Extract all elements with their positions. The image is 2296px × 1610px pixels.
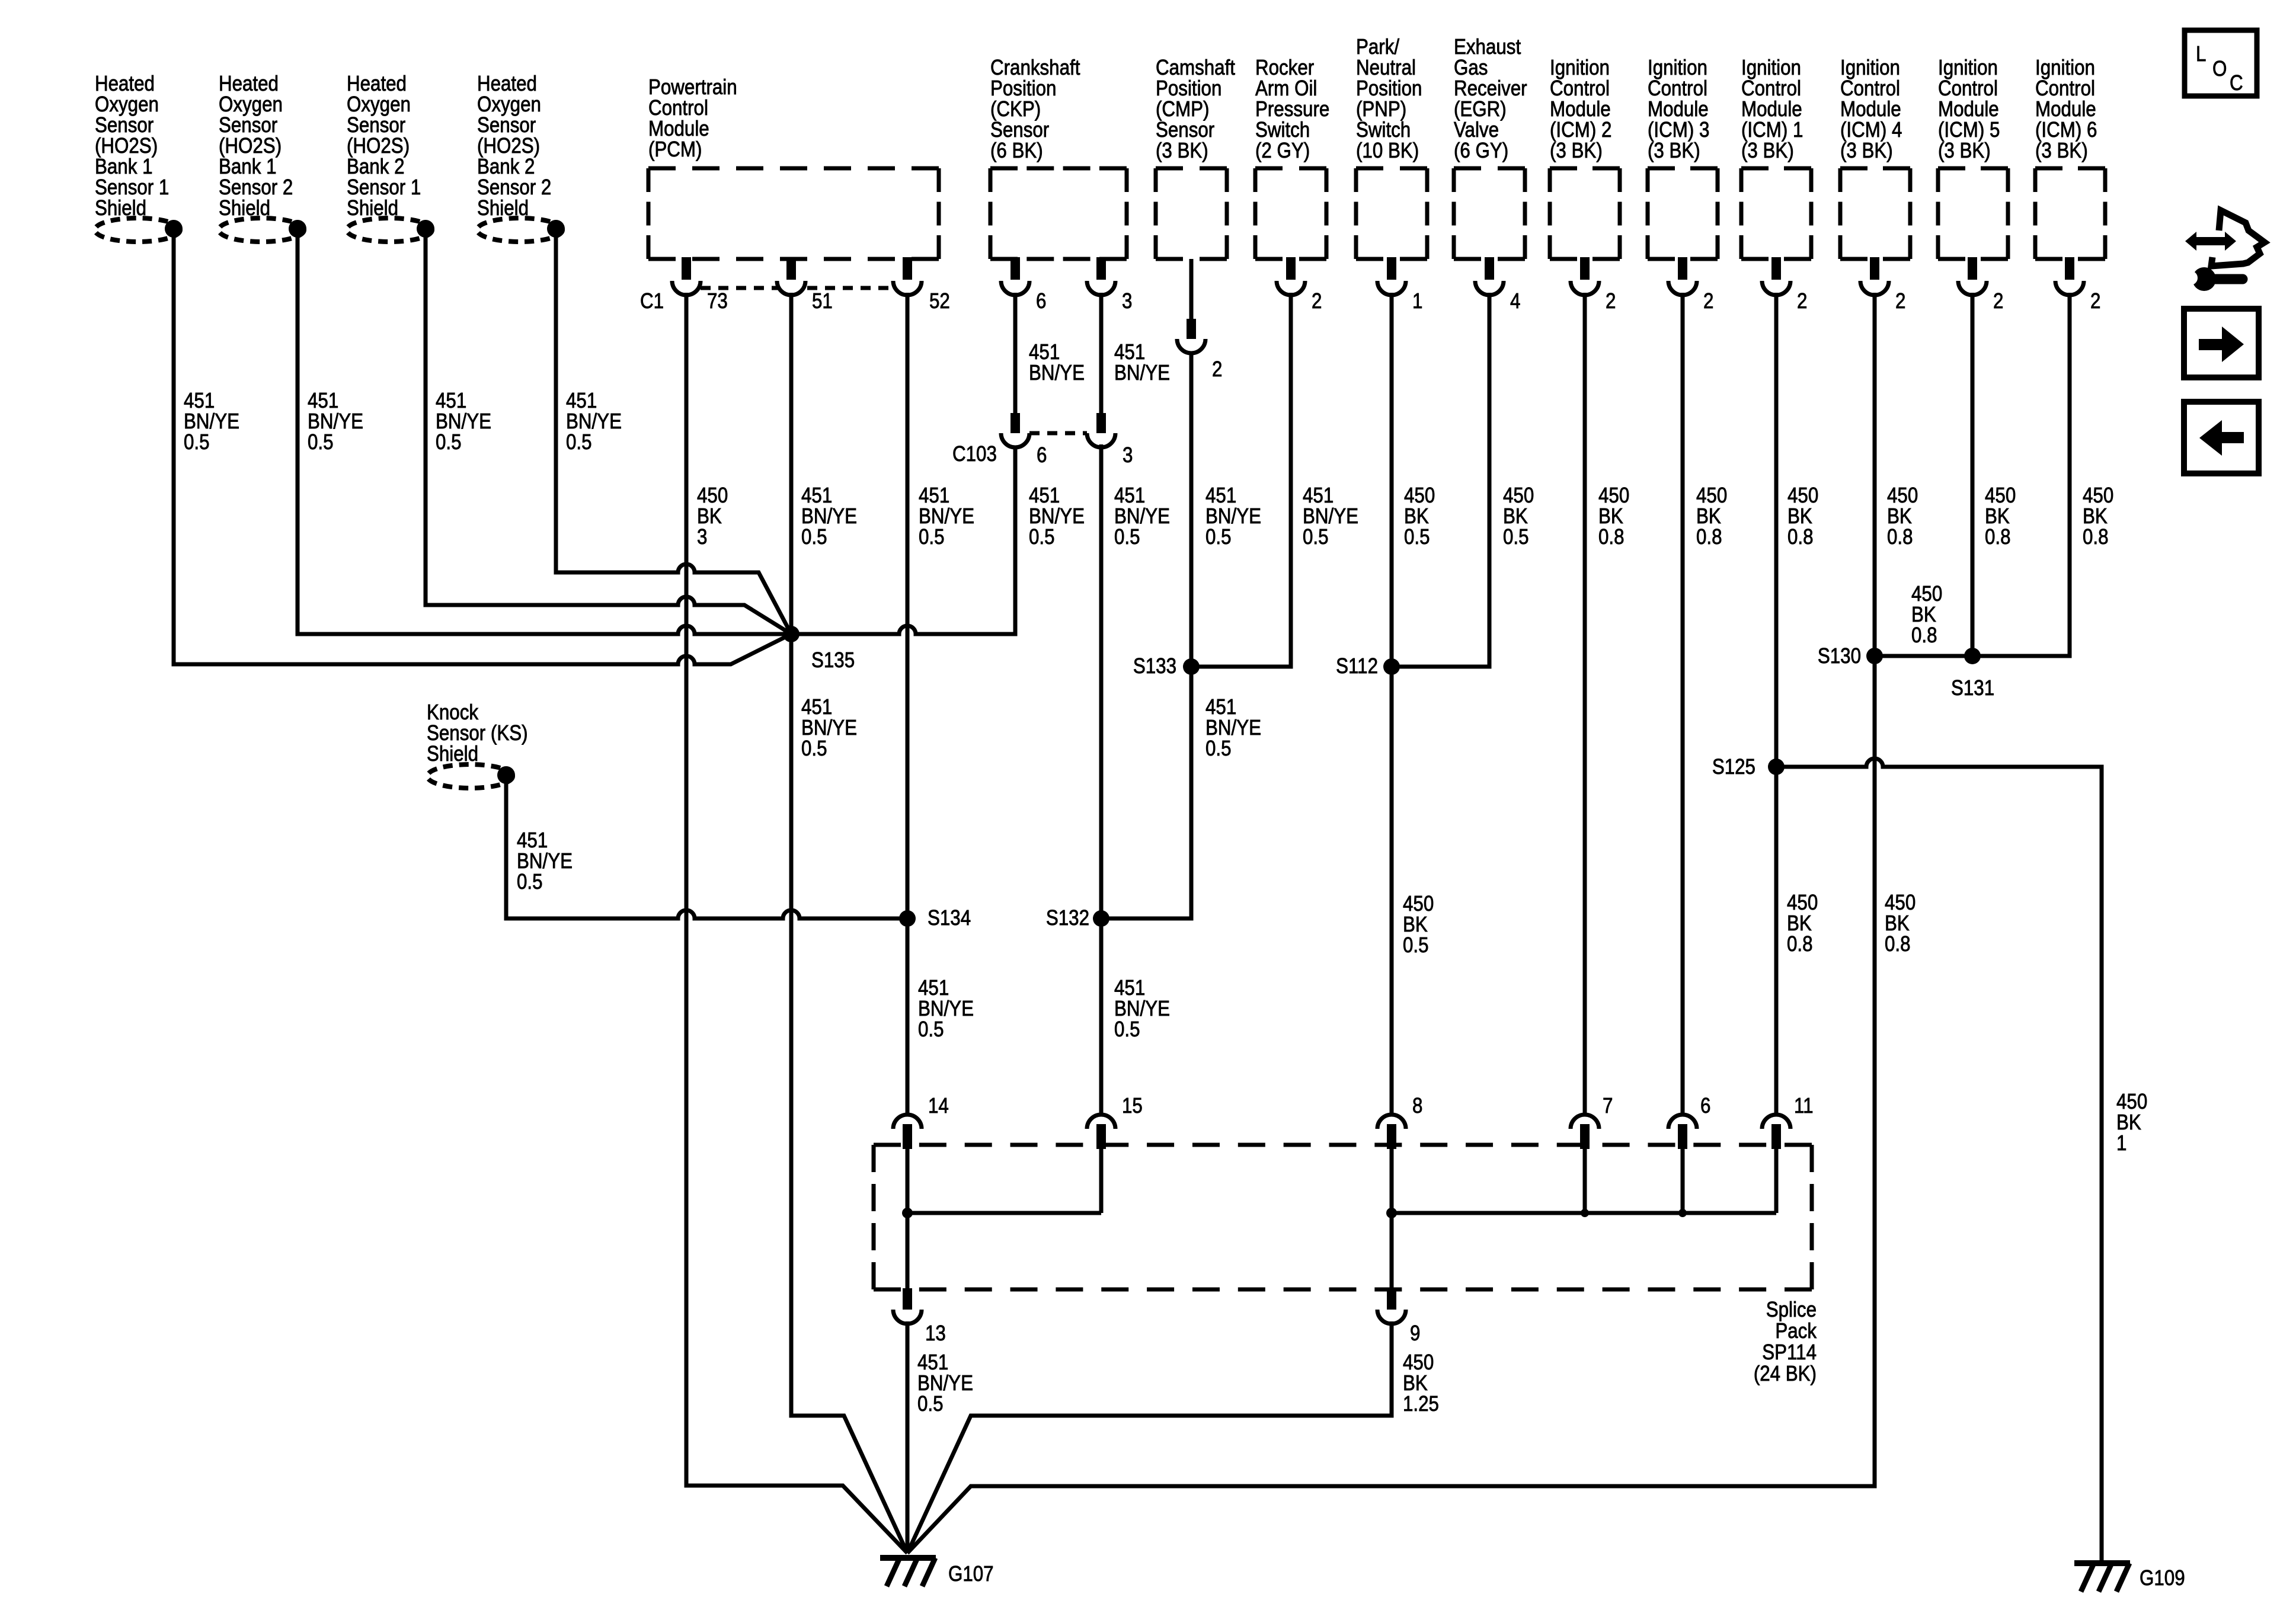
svg-text:3: 3 (1123, 443, 1133, 468)
svg-text:0.5: 0.5 (801, 737, 827, 761)
Powertrain Control Module (PCM) box (648, 168, 939, 259)
svg-text:0.5: 0.5 (517, 870, 543, 894)
ICM 2 pin 2 connector (1580, 257, 1590, 280)
PCM pin 52 connector (903, 257, 912, 280)
wire: HO2S shield 3 drain to S135 (451 BN/YE 0.5) (426, 232, 791, 634)
svg-text:(24 BK): (24 BK) (1754, 1362, 1817, 1386)
CKP pin 3 connector (1096, 257, 1106, 280)
Exhaust Gas Receiver Valve box (1454, 168, 1525, 259)
node S125 (1768, 758, 1785, 775)
svg-text:11: 11 (1794, 1094, 1814, 1118)
ICM 3 pin 2 connector (1678, 257, 1687, 280)
svg-text:52: 52 (929, 289, 950, 313)
ground G107 (880, 1555, 936, 1561)
svg-text:0.5: 0.5 (308, 430, 334, 454)
wire: PCM pin 52 through S134 to splice pin 14 (451 BN/YE 0.5) (906, 293, 910, 1116)
svg-text:0.5: 0.5 (1404, 525, 1430, 549)
svg-text:0.5: 0.5 (436, 430, 462, 454)
svg-text:73: 73 (707, 289, 728, 313)
svg-text:0.5: 0.5 (919, 525, 945, 549)
svg-text:Shield: Shield (477, 196, 529, 220)
wire: ICM2 pin 2 to splice pin 7 (450 BK 0.8) (1583, 293, 1587, 1116)
CMP pin 2 in-line connector (1187, 319, 1196, 339)
splice pin 11 connector (1762, 1115, 1790, 1129)
svg-text:3: 3 (1122, 289, 1132, 313)
wire: PCM pin 51 through S135 to G107 (451 BN/YE 0.5) (791, 293, 907, 1553)
svg-text:0.5: 0.5 (1114, 525, 1140, 549)
svg-text:2: 2 (1993, 289, 2003, 313)
Ignition Control Module 3 box (1648, 168, 1718, 259)
svg-text:(10 BK): (10 BK) (1356, 139, 1419, 163)
splice junction at pin 7 wire (1581, 1209, 1589, 1217)
wire: HO2S shield 4 drain to S135 (451 BN/YE 0.5) (556, 232, 791, 634)
connector C1 dashed link (701, 286, 894, 290)
wire: splice internal bus pins 8-11 (1392, 1211, 1776, 1215)
svg-text:0.5: 0.5 (1303, 525, 1329, 549)
connector C103 dashed link (1029, 431, 1087, 436)
svg-text:15: 15 (1122, 1094, 1143, 1118)
svg-text:(2 GY): (2 GY) (1255, 139, 1310, 163)
wire: splice internal bus pins 14-15 (907, 1211, 1101, 1215)
node S135 (783, 626, 800, 642)
svg-text:2: 2 (2090, 289, 2100, 313)
svg-text:S131: S131 (1951, 676, 1994, 700)
svg-text:0.5: 0.5 (917, 1392, 944, 1416)
wire: splice internal pin 7 stub (1583, 1149, 1587, 1213)
splice junction at pin 8 wire (1386, 1208, 1397, 1218)
node S130 (1866, 648, 1883, 664)
svg-text:14: 14 (928, 1094, 949, 1118)
svg-text:6: 6 (1036, 289, 1046, 313)
svg-text:0.5: 0.5 (566, 430, 592, 454)
wire: splice internal pin 14 to pin 13 (906, 1149, 910, 1289)
wire: CKP pin 6 to C103 (451 BN/YE) (1013, 293, 1018, 414)
HO2S shield 2 symbol (219, 218, 304, 242)
svg-text:S132: S132 (1046, 906, 1089, 930)
svg-text:0.8: 0.8 (1885, 932, 1911, 956)
wire: KS shield drain to S134 (451 BN/YE 0.5) (506, 779, 907, 918)
node S112 (1383, 658, 1400, 675)
ICM 5 pin 2 connector (1968, 257, 1977, 280)
wire: splice pin 9 to G107 (450 BK 1.25) (907, 1321, 1392, 1553)
wire: CMP pin 2 through S133 to S132 (451 BN/YE 0.5) (1101, 259, 1191, 918)
CKP pin 6 connector (1011, 257, 1020, 280)
wire: PNP pin 1 through S112 to splice pin 8 (450 BK 0.5) (1390, 293, 1394, 1116)
svg-text:0.8: 0.8 (1696, 525, 1722, 549)
svg-text:13: 13 (925, 1321, 946, 1346)
svg-text:0.8: 0.8 (1911, 623, 1937, 648)
PCM pin 73 connector (682, 257, 691, 280)
wire: S125 to G109 (450 BK 1) (1776, 758, 2102, 1562)
Ignition Control Module 2 box (1550, 168, 1620, 259)
wire: PCM pin 73 to G107 (450 BK 3) (686, 293, 907, 1553)
svg-text:51: 51 (812, 289, 833, 313)
wire: splice internal pin 15 stub (1099, 1149, 1104, 1213)
svg-text:0.8: 0.8 (1887, 525, 1913, 549)
svg-text:0.5: 0.5 (801, 525, 827, 549)
node S134 (899, 910, 916, 927)
splice pin 7 connector (1571, 1115, 1599, 1129)
svg-text:6: 6 (1037, 443, 1047, 468)
ICM 4 pin 2 connector (1870, 257, 1879, 280)
svg-text:(PCM): (PCM) (648, 137, 702, 162)
HO2S shield 3 symbol (347, 218, 432, 242)
svg-text:2: 2 (1312, 289, 1322, 313)
svg-text:0.5: 0.5 (918, 1017, 944, 1042)
svg-text:0.5: 0.5 (1403, 933, 1429, 958)
svg-text:C1: C1 (640, 289, 664, 313)
svg-text:1.25: 1.25 (1403, 1392, 1439, 1416)
splice junction at pin 14 wire (902, 1208, 913, 1218)
ground G109 (2074, 1560, 2130, 1566)
wire: splice internal pin 8 to pin 9 (1390, 1149, 1394, 1289)
svg-text:(6 GY): (6 GY) (1454, 139, 1508, 163)
wire: splice internal pin 6 stub (1681, 1149, 1685, 1213)
svg-text:G107: G107 (948, 1562, 994, 1586)
wire: ICM5 pin 2 to S131 (450 BK 0.8) (1971, 293, 1975, 656)
svg-text:6: 6 (1700, 1094, 1710, 1118)
svg-text:S133: S133 (1133, 654, 1176, 678)
svg-text:0.5: 0.5 (1205, 737, 1232, 761)
LOC reference box icon (2185, 30, 2257, 96)
Rocker pin 2 connector (1286, 257, 1296, 280)
svg-text:(3 BK): (3 BK) (1938, 139, 1991, 163)
Rocker Arm Oil Pressure Switch box (1255, 168, 1326, 259)
svg-text:7: 7 (1603, 1094, 1613, 1118)
svg-text:1: 1 (1412, 289, 1422, 313)
wire: ICM1 pin 2 through S125 to splice pin 11 (450 BK 0.8) (1774, 293, 1779, 1116)
splice pin 8 connector (1377, 1115, 1406, 1129)
svg-text:0.5: 0.5 (1029, 525, 1055, 549)
svg-text:BN/YE: BN/YE (1114, 361, 1170, 385)
svg-text:0.5: 0.5 (1205, 525, 1232, 549)
ICM 1 pin 2 connector (1771, 257, 1781, 280)
wire: ICM6 pin 2 to S130 (450 BK 0.8) (1875, 293, 2070, 656)
Knock Sensor shield symbol (427, 764, 513, 788)
HO2S shield 4 symbol (477, 218, 562, 242)
wire: EGR pin 4 to S112 (450 BK 0.5) (1392, 293, 1489, 667)
PNP pin 1 connector (1387, 257, 1396, 280)
svg-text:BN/YE: BN/YE (1029, 361, 1085, 385)
node S131 (1964, 648, 1981, 664)
svg-text:9: 9 (1410, 1321, 1420, 1346)
wire: C103 pin 3 through S132 to splice pin 15 (451 BN/YE 0.5) (1099, 444, 1104, 1116)
Ignition Control Module 1 box (1741, 168, 1811, 259)
svg-text:0.8: 0.8 (2083, 525, 2109, 549)
svg-text:2: 2 (1895, 289, 1905, 313)
svg-text:(3 BK): (3 BK) (1550, 139, 1603, 163)
svg-text:0.5: 0.5 (184, 430, 210, 454)
svg-text:2: 2 (1212, 357, 1222, 382)
svg-text:S134: S134 (928, 906, 971, 930)
svg-text:S125: S125 (1712, 755, 1755, 779)
svg-text:O: O (2212, 57, 2227, 81)
wire: ICM3 pin 2 to splice pin 6 (450 BK 0.8) (1681, 293, 1685, 1116)
wire: splice pin 13 to G107 (451 BN/YE 0.5) (906, 1321, 910, 1553)
splice pin 13 connector (903, 1288, 912, 1310)
wire: HO2S shield 2 drain to S135 (451 BN/YE 0.5) (298, 232, 791, 634)
svg-text:0.8: 0.8 (1598, 525, 1625, 549)
svg-text:2: 2 (1797, 289, 1807, 313)
svg-text:(3 BK): (3 BK) (2035, 139, 2088, 163)
Park/Neutral Position Switch box (1356, 168, 1427, 259)
svg-text:(3 BK): (3 BK) (1741, 139, 1794, 163)
svg-text:Shield: Shield (427, 742, 478, 766)
wire: S135 to C103 pin 6 (451 BN/YE 0.5) (791, 444, 1015, 634)
wire: CKP pin 3 to C103 (451 BN/YE) (1099, 293, 1104, 414)
svg-text:S135: S135 (811, 648, 855, 673)
wire: HO2S shield 1 drain to S135 (451 BN/YE 0.5) (174, 232, 791, 664)
splice pin 9 connector (1387, 1288, 1396, 1310)
svg-text:Shield: Shield (347, 196, 398, 220)
wire: ICM4 pin 2 through S130 to G107 (450 BK 0.8) (907, 293, 1875, 1553)
svg-text:S112: S112 (1336, 654, 1378, 678)
svg-text:2: 2 (1606, 289, 1616, 313)
svg-text:0.5: 0.5 (1114, 1017, 1140, 1042)
svg-text:C103: C103 (952, 442, 997, 466)
svg-text:0.5: 0.5 (1503, 525, 1529, 549)
C103 pin 6 connector (1011, 413, 1020, 433)
Ignition Control Module 5 box (1938, 168, 2008, 259)
splice pin 14 connector (893, 1115, 922, 1129)
svg-text:Splice: Splice (1766, 1298, 1817, 1322)
Crankshaft Position Sensor box (990, 168, 1127, 259)
ICM 6 pin 2 connector (2065, 257, 2074, 280)
svg-text:L: L (2196, 42, 2206, 66)
component-location (hood and wrench) icon (2185, 232, 2236, 251)
svg-text:G109: G109 (2140, 1566, 2185, 1590)
wire: splice internal pin 11 stub (1774, 1149, 1779, 1213)
svg-text:C: C (2230, 71, 2243, 95)
Ignition Control Module 6 box (2035, 168, 2105, 259)
svg-text:8: 8 (1412, 1094, 1422, 1118)
Ignition Control Module 4 box (1840, 168, 1910, 259)
Splice Pack SP114 box (874, 1145, 1812, 1289)
svg-text:4: 4 (1510, 289, 1520, 313)
svg-text:0.8: 0.8 (1787, 932, 1813, 956)
back arrow icon (2184, 402, 2259, 473)
node S132 (1093, 910, 1109, 927)
Camshaft Position Sensor box (1156, 168, 1227, 259)
wire: Rocker pin 2 to S133 (451 BN/YE 0.5) (1191, 293, 1291, 667)
C103 pin 3 connector (1096, 413, 1106, 433)
svg-text:(3 BK): (3 BK) (1840, 139, 1893, 163)
svg-text:Pack: Pack (1775, 1319, 1817, 1343)
svg-text:Shield: Shield (219, 196, 270, 220)
svg-text:0.8: 0.8 (1985, 525, 2011, 549)
HO2S shield 1 symbol (95, 218, 180, 242)
forward arrow icon (2184, 309, 2259, 377)
svg-text:(6 BK): (6 BK) (990, 139, 1043, 163)
svg-text:SP114: SP114 (1762, 1340, 1817, 1365)
EGR pin 4 connector (1485, 257, 1494, 280)
svg-text:(3 BK): (3 BK) (1156, 139, 1208, 163)
svg-text:(3 BK): (3 BK) (1648, 139, 1700, 163)
svg-text:2: 2 (1703, 289, 1713, 313)
svg-text:S130: S130 (1818, 644, 1861, 668)
svg-text:Shield: Shield (95, 196, 146, 220)
splice pin 15 connector (1087, 1115, 1115, 1129)
splice pin 6 connector (1668, 1115, 1697, 1129)
svg-text:3: 3 (697, 525, 707, 549)
svg-text:1: 1 (2116, 1131, 2126, 1156)
svg-text:0.8: 0.8 (1787, 525, 1814, 549)
splice junction at pin 6 wire (1678, 1209, 1687, 1217)
node S133 (1183, 658, 1200, 675)
PCM pin 51 connector (786, 257, 796, 280)
